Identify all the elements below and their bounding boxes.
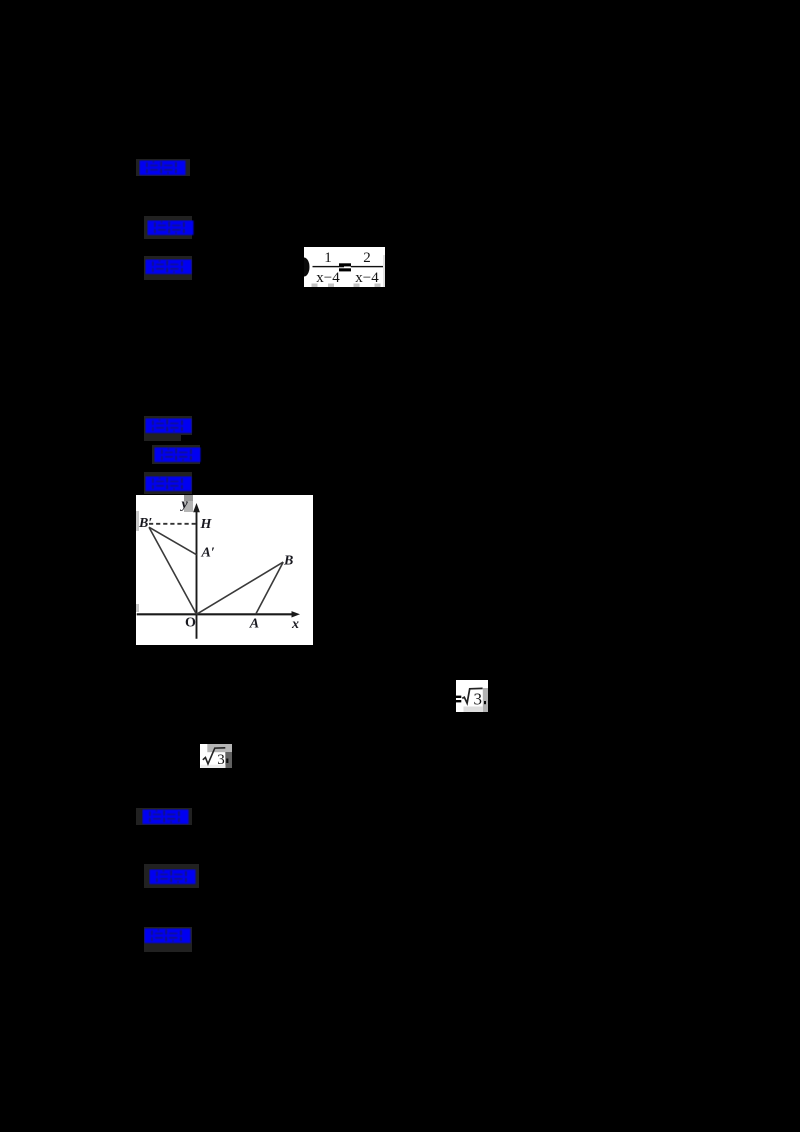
artifact gray under label <box>184 495 193 501</box>
svg-text:x: x <box>291 617 299 632</box>
label answer 1 (【答案】 blue) <box>136 159 190 176</box>
svg-text:2: 2 <box>363 250 371 266</box>
label analysis 2 <box>152 445 200 464</box>
svg-text:O: O <box>185 616 196 631</box>
label answer 3 <box>136 808 192 825</box>
label answer 2 <box>144 434 181 441</box>
svg-text:3: 3 <box>474 690 483 709</box>
svg-text:3: 3 <box>217 752 225 768</box>
svg-text:y: y <box>180 497 189 512</box>
svg-text:B: B <box>283 554 293 569</box>
y-axis <box>196 509 198 639</box>
triangle O A' B' <box>149 527 197 555</box>
labels <box>138 497 299 632</box>
svg-text:B′: B′ <box>138 516 152 531</box>
svg-text:1: 1 <box>324 250 332 266</box>
svg-text:A: A <box>249 617 259 632</box>
x-axis <box>137 613 293 615</box>
triangle O A B <box>197 562 284 614</box>
svg-text:A′: A′ <box>201 546 215 561</box>
label detail 1 (【详解】 blue) <box>144 256 192 280</box>
label analysis 1 (【分析】 blue) <box>144 216 192 239</box>
eq box sqrt(3) <box>200 744 232 768</box>
label detail 3 <box>144 927 192 952</box>
label detail 2 <box>144 472 192 494</box>
equation box: 1/(x-4) = 2/(x-4) <box>304 247 385 287</box>
label analysis 3 <box>144 864 199 888</box>
dashed B'H <box>149 523 196 525</box>
geometry figure box <box>136 495 313 645</box>
svg-text:H: H <box>200 517 213 532</box>
eq box =sqrt(3) <box>456 680 488 712</box>
